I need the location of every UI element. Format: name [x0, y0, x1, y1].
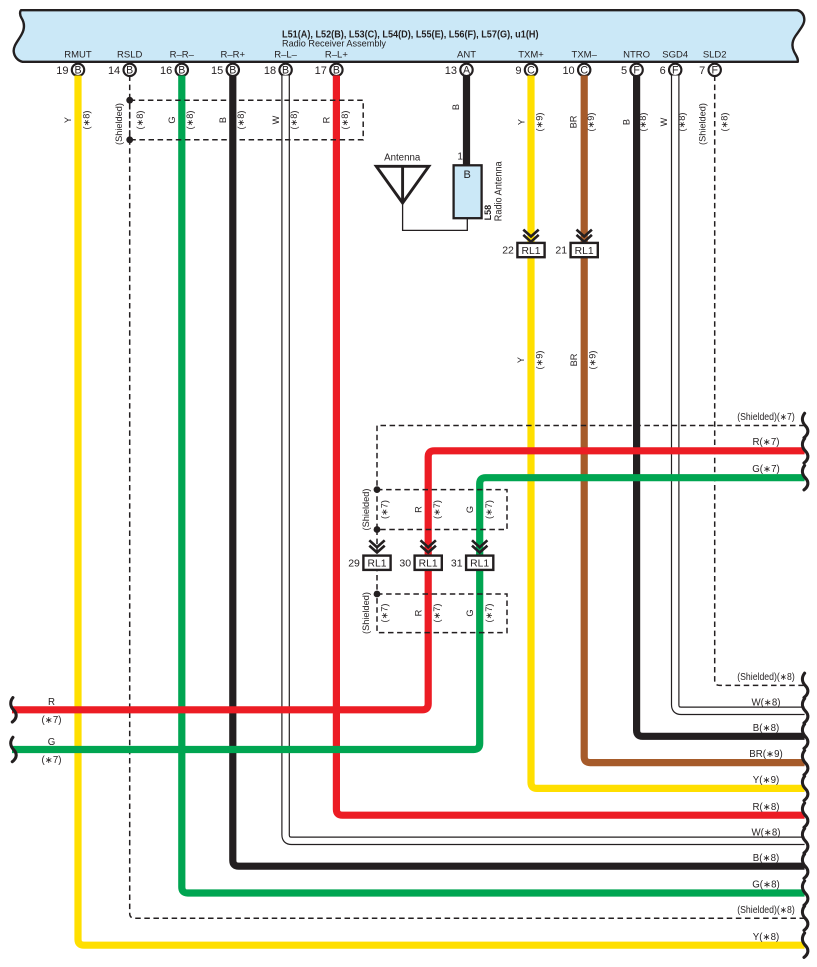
svg-text:G: G [48, 737, 56, 748]
svg-text:RL1: RL1 [522, 246, 541, 257]
svg-text:B: B [451, 104, 461, 110]
svg-text:(∗8): (∗8) [638, 113, 648, 132]
svg-text:NTRO: NTRO [623, 50, 650, 61]
pin 10(C) TXM– [562, 50, 597, 77]
svg-text:Radio Receiver Assembly: Radio Receiver Assembly [282, 38, 386, 49]
svg-text:B: B [229, 65, 236, 77]
wire SLD2 shield dashed vertical+elbow [715, 76, 805, 686]
svg-text:19: 19 [56, 65, 68, 77]
svg-text:(∗8): (∗8) [135, 111, 145, 130]
svg-text:(∗7): (∗7) [432, 604, 442, 623]
svg-text:(∗7): (∗7) [432, 500, 442, 519]
svg-text:5: 5 [621, 65, 627, 77]
svg-text:R: R [48, 697, 55, 708]
svg-text:B: B [126, 65, 133, 77]
svg-text:R(∗7): R(∗7) [753, 437, 780, 448]
wire break marks left edge [11, 698, 16, 722]
svg-text:G: G [167, 116, 177, 123]
shield (*7) dashed horizontal to right edge and vertical drain x377 [377, 426, 805, 491]
splice RL1 #29 on shield drain [369, 540, 384, 547]
svg-text:Y: Y [63, 117, 73, 123]
svg-text:B: B [464, 169, 471, 181]
svg-text:R–R–: R–R– [170, 50, 195, 61]
svg-text:TXM–: TXM– [572, 50, 598, 61]
svg-text:(∗7): (∗7) [42, 715, 62, 726]
svg-text:G(∗7): G(∗7) [752, 464, 780, 475]
svg-text:F: F [711, 65, 718, 77]
pin 9(C) TXM+ [515, 50, 544, 77]
pin 13(A) ANT [445, 50, 476, 77]
svg-text:BR: BR [569, 353, 579, 366]
svg-text:(∗7): (∗7) [484, 500, 494, 519]
wire break marks right edge [802, 413, 807, 437]
svg-text:F: F [672, 65, 679, 77]
svg-text:(∗8): (∗8) [81, 111, 91, 130]
svg-text:W(∗8): W(∗8) [751, 697, 780, 708]
svg-text:R: R [321, 116, 331, 123]
wire SGD4 white W(*8) vertical+elbow [675, 76, 804, 711]
svg-text:BR(∗9): BR(∗9) [749, 749, 782, 760]
svg-text:R: R [413, 609, 423, 616]
svg-text:R–L+: R–L+ [325, 50, 348, 61]
svg-text:R(∗8): R(∗8) [753, 802, 780, 813]
svg-text:G: G [465, 506, 475, 513]
splice RL1 #22 on TXM+ [523, 230, 538, 237]
svg-text:(∗8): (∗8) [236, 111, 246, 130]
svg-text:W: W [271, 115, 281, 124]
svg-text:(∗9): (∗9) [534, 113, 544, 132]
svg-text:B: B [621, 119, 631, 125]
svg-text:SGD4: SGD4 [662, 50, 688, 61]
svg-text:(∗7): (∗7) [379, 604, 389, 623]
wire TXM- brown BR(*9) vertical+elbow [584, 76, 804, 763]
svg-text:(∗8): (∗8) [340, 111, 350, 130]
splice RL1 #31 on green [472, 540, 487, 547]
svg-text:W: W [659, 117, 669, 126]
svg-text:SLD2: SLD2 [703, 50, 727, 61]
svg-text:(∗9): (∗9) [535, 351, 545, 370]
svg-text:22: 22 [502, 245, 514, 257]
svg-text:C: C [527, 65, 535, 77]
svg-text:16: 16 [160, 65, 172, 77]
svg-text:9: 9 [515, 65, 521, 77]
top shield box (Shielded)(*8) [130, 100, 364, 140]
svg-text:C: C [580, 65, 588, 77]
svg-text:B(∗8): B(∗8) [753, 723, 779, 734]
svg-text:(∗7): (∗7) [379, 500, 389, 519]
svg-text:B: B [333, 65, 340, 77]
junction dots on drain [374, 486, 381, 493]
splice RL1 #21 on TXM- [577, 230, 592, 237]
svg-text:(∗9): (∗9) [586, 113, 596, 132]
svg-text:15: 15 [211, 65, 223, 77]
svg-text:G: G [465, 609, 475, 616]
svg-text:RL1: RL1 [368, 558, 387, 569]
drain between boxes through RL1 29 [376, 530, 378, 595]
pin 14(B) RSLD [108, 50, 143, 77]
svg-text:B(∗8): B(∗8) [753, 853, 779, 864]
thin lead from antenna to L58 [403, 203, 468, 230]
wire R-R- green G(*8) vertical+elbow [182, 76, 805, 894]
shield box upper (*7) [377, 490, 507, 530]
svg-text:(Shielded)(∗8): (Shielded)(∗8) [737, 905, 795, 916]
svg-text:18: 18 [264, 65, 276, 77]
wire R-L+ red R(*8) vertical+elbow [336, 76, 804, 816]
svg-text:1: 1 [457, 151, 463, 162]
svg-text:RL1: RL1 [419, 558, 438, 569]
pin 18(B) R–L– [264, 50, 298, 77]
pin 6(F) SGD4 [660, 50, 689, 77]
pin 5(F) NTRO [621, 50, 650, 77]
svg-text:(Shielded)(∗8): (Shielded)(∗8) [737, 672, 795, 683]
svg-text:B: B [178, 65, 185, 77]
svg-text:F: F [633, 65, 640, 77]
shield box lower (*7) [377, 594, 507, 633]
svg-text:Y(∗8): Y(∗8) [753, 932, 779, 943]
svg-text:(∗8): (∗8) [289, 111, 299, 130]
svg-text:RSLD: RSLD [117, 50, 142, 61]
svg-text:ANT: ANT [457, 50, 476, 61]
svg-text:B: B [74, 65, 81, 77]
svg-text:(Shielded): (Shielded) [114, 103, 124, 145]
svg-text:17: 17 [315, 65, 327, 77]
svg-text:Radio Antenna: Radio Antenna [494, 161, 505, 221]
wire TXM+ yellow Y(*9) vertical+elbow [531, 76, 805, 789]
svg-text:B: B [218, 117, 228, 123]
svg-text:TXM+: TXM+ [518, 50, 544, 61]
svg-text:Y: Y [517, 119, 527, 125]
svg-text:W(∗8): W(∗8) [751, 827, 780, 838]
wire ANT black B vertical [463, 76, 470, 167]
pin 7(F) SLD2 [699, 50, 727, 77]
svg-text:RL1: RL1 [575, 246, 594, 257]
svg-text:30: 30 [399, 557, 411, 569]
svg-text:(Shielded)(∗7): (Shielded)(∗7) [737, 412, 795, 423]
svg-text:(∗9): (∗9) [588, 351, 598, 370]
svg-text:RMUT: RMUT [64, 50, 92, 61]
svg-text:(Shielded): (Shielded) [697, 103, 707, 145]
svg-text:BR: BR [568, 115, 578, 128]
svg-text:(Shielded): (Shielded) [361, 592, 371, 634]
svg-text:G(∗8): G(∗8) [752, 880, 780, 891]
svg-text:6: 6 [660, 65, 666, 77]
svg-text:Y: Y [516, 357, 526, 363]
svg-text:29: 29 [348, 557, 360, 569]
svg-text:R: R [413, 506, 423, 513]
svg-text:Antenna: Antenna [384, 153, 421, 164]
svg-text:(Shielded): (Shielded) [361, 489, 371, 531]
svg-text:(∗8): (∗8) [719, 113, 729, 132]
wire G(*7) green: left edge, up at x479.5, right to edge [12, 478, 805, 750]
svg-text:(∗7): (∗7) [42, 755, 62, 766]
svg-text:(∗7): (∗7) [484, 604, 494, 623]
pin 17(B) R–L+ [315, 50, 349, 77]
svg-text:(∗8): (∗8) [185, 111, 195, 130]
svg-text:R–R+: R–R+ [221, 50, 246, 61]
connector band L51 Radio Receiver Assembly [14, 10, 805, 62]
svg-text:14: 14 [108, 65, 120, 77]
pin 15(B) R–R+ [211, 50, 245, 77]
wire R-R+ black B(*8) vertical+elbow [233, 76, 805, 867]
svg-text:31: 31 [451, 557, 463, 569]
antenna symbol [376, 166, 429, 203]
pin 16(B) R–R– [160, 50, 195, 77]
svg-text:Y(∗9): Y(∗9) [753, 775, 779, 786]
svg-text:7: 7 [699, 65, 705, 77]
svg-text:R–L–: R–L– [274, 50, 297, 61]
svg-text:(∗8): (∗8) [677, 113, 687, 132]
pin 19(B) RMUT [56, 50, 92, 77]
svg-text:L58: L58 [483, 205, 493, 221]
wire RSLD shield drain dashed vertical+elbow [130, 76, 805, 919]
L58 Radio Antenna box [454, 165, 482, 218]
svg-text:10: 10 [562, 65, 574, 77]
svg-text:21: 21 [555, 245, 567, 257]
splice RL1 #30 on red [421, 540, 436, 547]
wire R-L- white W(*8) vertical+elbow [286, 76, 805, 841]
svg-text:13: 13 [445, 65, 457, 77]
wire R(*7) red: left edge, up at x428, right to edge [12, 451, 805, 710]
svg-text:A: A [463, 65, 471, 77]
svg-text:B: B [282, 65, 289, 77]
wire NTRO black B(*8) vertical+elbow [637, 76, 805, 737]
svg-text:RL1: RL1 [470, 558, 489, 569]
